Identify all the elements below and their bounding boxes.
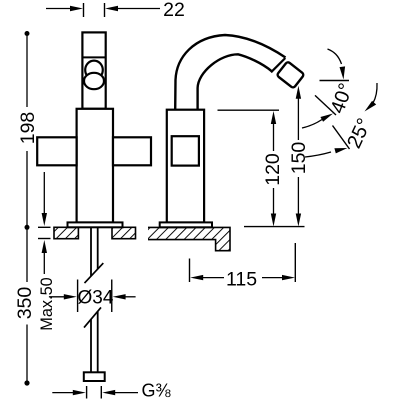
dot top	[25, 31, 30, 36]
pipe break mark lower	[84, 307, 101, 327]
dimension G3/8 left arrow	[52, 392, 75, 394]
dimension 115 left arrow	[201, 277, 224, 279]
right figure: spout outer curve	[175, 35, 285, 110]
angle 40 leader arrow	[328, 49, 342, 64]
svg-text:120: 120	[262, 153, 284, 186]
spout end cap	[271, 58, 285, 72]
dot middle	[25, 225, 30, 230]
angle 25 leader arrow	[373, 83, 377, 103]
left figure: deck hatched right block	[112, 227, 136, 238]
svg-text:115: 115	[226, 269, 257, 291]
svg-text:198: 198	[17, 112, 39, 145]
left figure: base flange	[68, 222, 123, 227]
dimension Max.50 lower arrow	[43, 251, 45, 274]
svg-text:Ø34: Ø34	[78, 288, 114, 309]
dimension 22 ticks	[84, 3, 105, 17]
svg-text:350: 350	[14, 287, 36, 320]
dimension O34 ticks	[78, 280, 112, 313]
deck reference line right	[244, 226, 305, 228]
svg-text:150: 150	[288, 142, 310, 175]
right figure: spout inner curve	[198, 54, 272, 110]
angle 40 tick	[315, 95, 336, 115]
dimension G3/8 ticks	[87, 386, 102, 399]
svg-text:Max.50: Max.50	[38, 277, 56, 330]
dimension 150 line	[297, 98, 299, 214]
angle 25 arc arrow	[305, 152, 331, 157]
right figure: body	[167, 110, 204, 223]
left figure: handle stem	[82, 32, 105, 108]
dimension 22 line left arrow	[46, 8, 72, 10]
dimension Max.50 upper arrow	[43, 172, 45, 215]
right figure: handle side square	[172, 136, 199, 165]
spout height reference line 120	[218, 109, 280, 111]
dimension G3/8 right arrow	[113, 392, 138, 394]
dimension O34 right arrow	[124, 296, 136, 298]
angle 25 tick	[333, 126, 350, 150]
dimension 198-350 vertical line	[26, 34, 28, 384]
svg-text:22: 22	[163, 0, 185, 21]
handle knob lower ellipse	[84, 73, 104, 89]
left figure: deck hatched left block	[54, 227, 78, 238]
angle 40 horizontal ray	[320, 80, 350, 82]
dimension 22 line right arrow	[116, 8, 160, 10]
left figure: supply pipe	[91, 227, 98, 372]
left figure: right cross arm	[113, 137, 151, 165]
dimension 115 right arrow	[262, 277, 284, 279]
aerator tip	[277, 61, 305, 88]
left figure: valve body	[77, 109, 113, 223]
dot bottom	[24, 380, 29, 385]
handle knob upper circle	[85, 61, 103, 80]
dimension 120 line	[273, 123, 275, 214]
handle stem divider	[82, 56, 105, 58]
right figure: deck hatched section	[148, 227, 230, 250]
angle 40 arc arrow	[302, 120, 322, 129]
pipe break mark upper	[85, 263, 104, 283]
dimension Max.50 ticks	[38, 227, 51, 238]
hose connector G3/8	[84, 372, 105, 381]
dimension O34 left arrow	[49, 296, 66, 298]
svg-text:G⅜: G⅜	[142, 381, 172, 400]
right figure: base flange	[160, 222, 212, 227]
left figure: left cross arm	[37, 137, 76, 165]
dimension 115 extension lines	[190, 243, 296, 282]
